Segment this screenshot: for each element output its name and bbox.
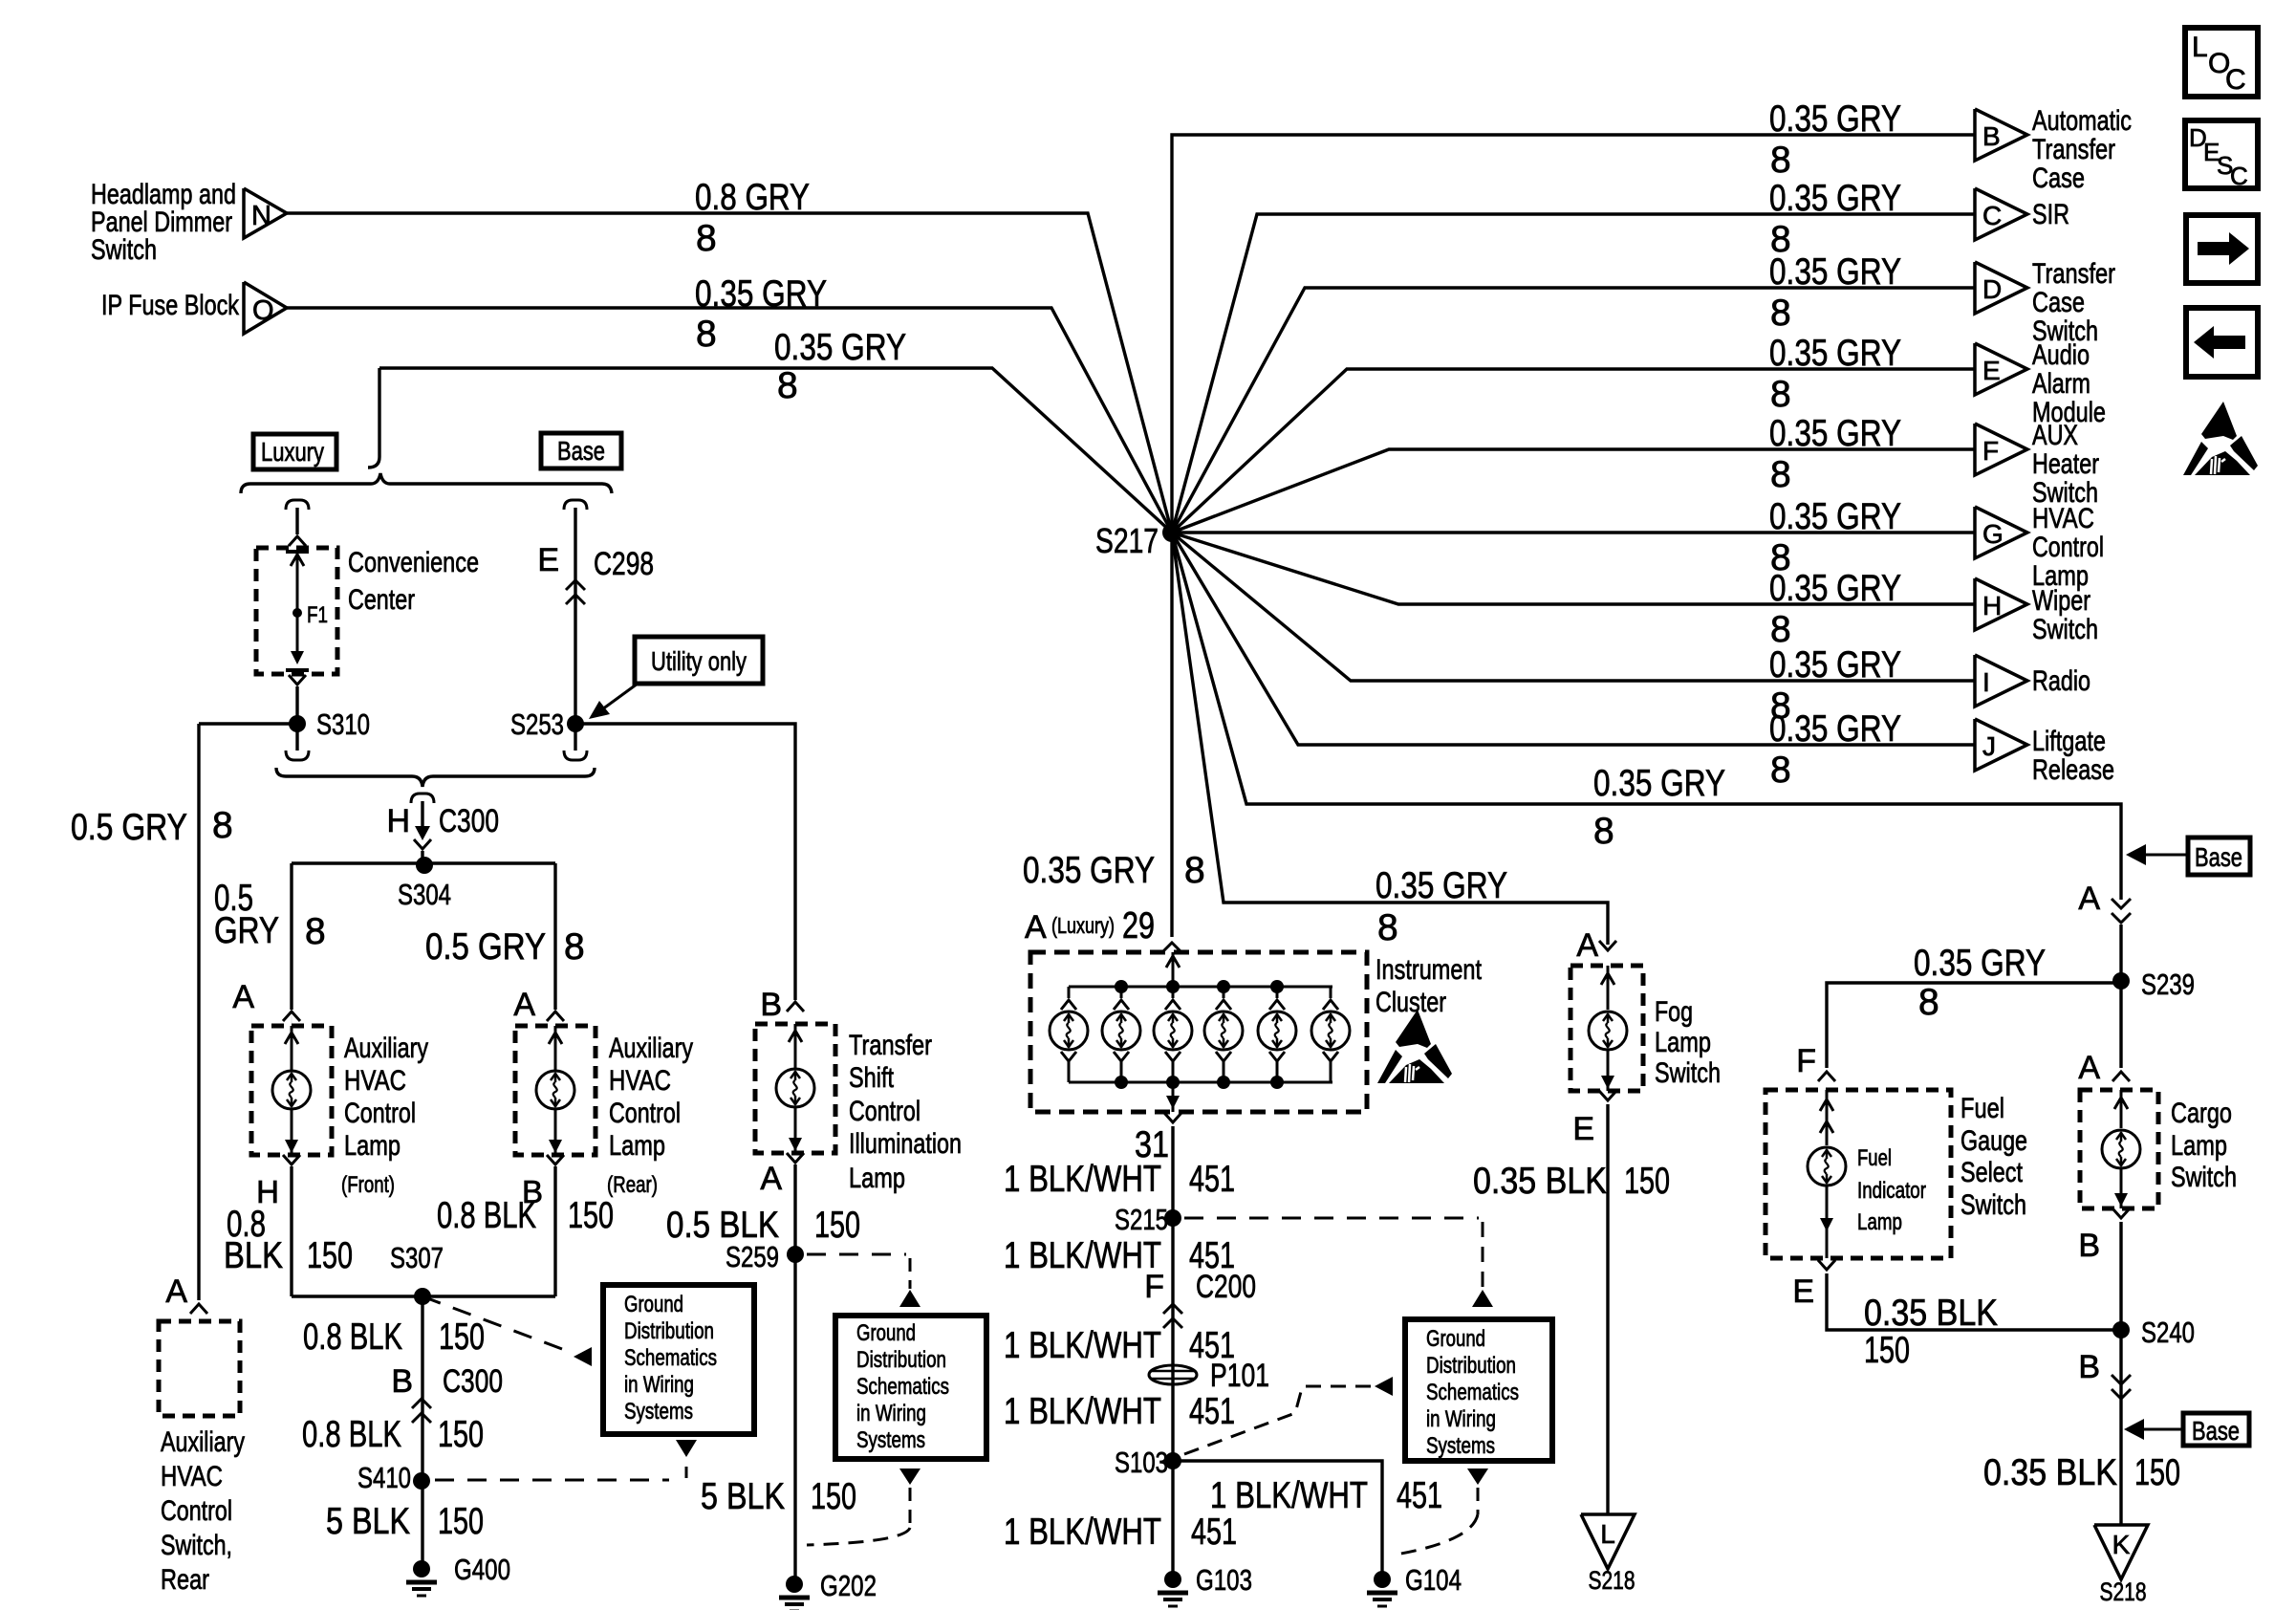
svg-text:5 BLK: 5 BLK <box>326 1501 410 1542</box>
svg-text:29: 29 <box>1122 905 1155 946</box>
svg-text:Shift: Shift <box>849 1062 895 1094</box>
wire S239 to fuel gauge select switch (0.35 GRY 8) <box>1796 943 2121 1081</box>
svg-text:8: 8 <box>1770 454 1791 495</box>
switch Fuel Gauge Select Switch with Fuel Indicator Lamp (dashed box) <box>1765 1090 2027 1258</box>
connector E triangle <box>1975 339 2106 428</box>
svg-text:G: G <box>1982 519 2004 549</box>
svg-text:Lamp: Lamp <box>1655 1027 1711 1058</box>
svg-text:150: 150 <box>438 1501 484 1542</box>
svg-text:Cargo: Cargo <box>2171 1098 2232 1129</box>
svg-text:Lamp: Lamp <box>609 1130 665 1162</box>
wire S410 to G400 (5 BLK 150) <box>326 1501 484 1542</box>
svg-text:Cluster: Cluster <box>1375 987 1446 1018</box>
svg-text:Radio: Radio <box>2032 665 2090 697</box>
svg-text:G103: G103 <box>1196 1563 1252 1597</box>
svg-text:Distribution: Distribution <box>624 1318 714 1344</box>
svg-text:J: J <box>1982 731 1996 761</box>
svg-text:E: E <box>1792 1273 1814 1310</box>
svg-text:0.35 GRY: 0.35 GRY <box>1769 708 1901 750</box>
wire label 1 BLK/WHT 451 (row 5) <box>1004 1512 1237 1553</box>
svg-text:S215: S215 <box>1115 1203 1168 1236</box>
svg-text:Fuel: Fuel <box>1960 1093 2004 1124</box>
svg-text:150: 150 <box>811 1476 856 1517</box>
svg-text:(Rear): (Rear) <box>607 1172 658 1198</box>
wire S217 to instrument cluster (0.35 GRY 8) <box>1023 533 1205 937</box>
svg-text:E: E <box>1982 356 2001 385</box>
wire S304 to rear HVAC lamp (0.5 GRY 8) <box>425 863 585 1023</box>
svg-text:C200: C200 <box>1196 1269 1256 1305</box>
svg-text:Wiper: Wiper <box>2032 585 2090 617</box>
tag box Base (right upper) with arrow <box>2126 838 2250 875</box>
dashed reference S215 to ground distribution box (right) <box>1184 1218 1493 1307</box>
svg-text:F: F <box>1796 1043 1816 1079</box>
svg-text:HVAC: HVAC <box>2032 503 2094 534</box>
wire label 1 BLK/WHT 451 (row 1) <box>1004 1159 1235 1200</box>
svg-text:0.8 BLK: 0.8 BLK <box>437 1195 536 1236</box>
dashed reference S307 to ground distribution box <box>422 1296 592 1366</box>
svg-text:150: 150 <box>2134 1452 2180 1493</box>
svg-text:Switch: Switch <box>1960 1189 2026 1221</box>
lamp front Auxiliary HVAC Control Lamp (dashed box) <box>251 1013 428 1209</box>
svg-text:Distribution: Distribution <box>856 1347 946 1373</box>
wire S253 to transfer shift lamp (B) <box>575 724 804 1023</box>
svg-text:A: A <box>165 1273 187 1310</box>
connector G triangle <box>1975 503 2104 592</box>
splice S239 <box>2112 968 2195 1001</box>
svg-text:0.35 BLK: 0.35 BLK <box>1473 1161 1607 1202</box>
svg-text:451: 451 <box>1191 1512 1237 1553</box>
legend box LOC <box>2185 28 2258 97</box>
wire S310 to left column (0.5 GRY 8) <box>71 724 297 1300</box>
svg-text:Distribution: Distribution <box>1426 1353 1516 1379</box>
svg-text:A: A <box>513 987 535 1023</box>
ground G400 <box>413 1560 430 1577</box>
svg-text:C298: C298 <box>594 546 654 582</box>
svg-text:I: I <box>1982 667 1990 697</box>
wire rear lamp to S307 bus (0.8 BLK 150) <box>437 1166 614 1296</box>
svg-text:G104: G104 <box>1405 1563 1462 1597</box>
wire S217 to F (0.35 GRY 8) <box>1172 413 1975 533</box>
svg-text:E: E <box>1572 1111 1594 1147</box>
svg-text:IP Fuse Block: IP Fuse Block <box>101 290 240 321</box>
connector B triangle <box>1975 105 2132 194</box>
svg-text:0.35 GRY: 0.35 GRY <box>1769 644 1901 685</box>
svg-text:0.35 GRY: 0.35 GRY <box>1023 850 1155 891</box>
svg-text:Switch: Switch <box>91 234 157 266</box>
svg-text:(Front): (Front) <box>341 1172 395 1198</box>
svg-text:in Wiring: in Wiring <box>1426 1406 1496 1432</box>
svg-text:Liftgate: Liftgate <box>2032 726 2106 757</box>
wire transfer shift lamp to S259 (0.5 BLK 150) <box>666 1164 860 1584</box>
legend box arrow left <box>2186 308 2258 377</box>
svg-text:0.35 GRY: 0.35 GRY <box>1769 251 1901 293</box>
svg-text:8: 8 <box>564 926 585 968</box>
svg-text:8: 8 <box>1918 982 1939 1023</box>
svg-text:AUX: AUX <box>2032 420 2078 451</box>
svg-text:0.35 BLK: 0.35 BLK <box>1864 1293 1998 1334</box>
splice S215 <box>1115 1203 1181 1236</box>
switch Auxiliary HVAC Control Switch Rear (dashed box) <box>159 1321 245 1596</box>
wire S217 to B (0.35 GRY 8) <box>1172 98 1975 533</box>
wire S307 to C300 (0.8 BLK 150) <box>303 1296 485 1569</box>
stub Luxury side connector <box>286 500 309 546</box>
svg-text:Switch: Switch <box>2032 614 2098 645</box>
legend box DESC <box>2185 120 2258 190</box>
svg-text:0.8 GRY: 0.8 GRY <box>695 177 810 218</box>
wire cluster pin 31 output <box>1135 1113 1181 1577</box>
svg-text:C300: C300 <box>443 1363 503 1400</box>
ESD symbol (legend) <box>2183 402 2258 475</box>
svg-text:G202: G202 <box>820 1569 877 1602</box>
svg-text:A: A <box>1025 909 1047 946</box>
splice S307 <box>292 1241 555 1305</box>
svg-text:1 BLK/WHT: 1 BLK/WHT <box>1004 1159 1161 1200</box>
svg-text:F: F <box>1982 436 1999 466</box>
svg-text:Auxiliary: Auxiliary <box>344 1033 428 1064</box>
svg-text:0.5 GRY: 0.5 GRY <box>425 926 546 968</box>
wire S217 to C (0.35 GRY 8) <box>1172 178 1975 533</box>
svg-text:L: L <box>1600 1519 1615 1549</box>
svg-text:8: 8 <box>1770 750 1791 791</box>
splice S304 and lamp feed bus <box>292 857 555 911</box>
dashed reference S410 to ground distribution box <box>435 1440 856 1517</box>
brace under S310/S253 <box>276 768 595 787</box>
svg-text:8: 8 <box>777 365 798 406</box>
tag box Luxury <box>253 434 336 469</box>
splice S217 hub <box>1095 521 1181 560</box>
svg-text:Switch: Switch <box>2171 1162 2237 1193</box>
connector B C300 lower <box>302 1363 503 1455</box>
svg-text:0.35 GRY: 0.35 GRY <box>1769 333 1901 374</box>
wire S217 to I (0.35 GRY 8) <box>1172 533 1975 727</box>
lamp Transfer Shift Control Illumination Lamp (dashed box) <box>755 1024 962 1197</box>
svg-text:L: L <box>2192 32 2208 63</box>
reference box Ground Distribution Schematics in Wiring Systems (right) <box>1405 1319 1552 1461</box>
connector K S218 (triangle down) <box>2094 1525 2148 1606</box>
wire N to S217 (0.8 GRY 8) <box>287 177 1172 533</box>
svg-text:F1: F1 <box>307 602 328 628</box>
svg-text:C: C <box>2225 64 2246 96</box>
wire fog lamp to S218-L (0.35 BLK 150) <box>1473 1091 1670 1514</box>
connector F triangle <box>1975 420 2099 509</box>
svg-text:P101: P101 <box>1210 1358 1269 1394</box>
svg-text:in Wiring: in Wiring <box>856 1401 926 1426</box>
svg-text:0.35 GRY: 0.35 GRY <box>1769 178 1901 219</box>
svg-text:Select: Select <box>1960 1157 2024 1188</box>
wire S217 to G (0.35 GRY 8) <box>1172 496 1975 578</box>
svg-text:0.35 GRY: 0.35 GRY <box>1375 865 1507 906</box>
svg-text:Center: Center <box>348 584 415 616</box>
pin A (Luxury) 29 into instrument cluster <box>1025 905 1181 952</box>
svg-text:0.8 BLK: 0.8 BLK <box>302 1414 401 1455</box>
wire S217 to E (0.35 GRY 8) <box>1172 333 1975 533</box>
wire front lamp to S307 bus (0.8 BLK 150) <box>224 1166 353 1296</box>
svg-text:451: 451 <box>1189 1159 1235 1200</box>
svg-text:C: C <box>2230 162 2248 190</box>
splice S310 <box>286 707 370 760</box>
svg-text:0.35 GRY: 0.35 GRY <box>695 273 827 315</box>
svg-text:B: B <box>2078 1228 2100 1264</box>
svg-text:S259: S259 <box>726 1240 779 1273</box>
wire S217 to H (0.35 GRY 8) <box>1172 533 1975 650</box>
wire S217 to fog lamp switch (0.35 GRY 8) <box>1172 533 1616 964</box>
svg-text:C300: C300 <box>439 803 499 839</box>
brace over Luxury/Base split <box>241 473 612 493</box>
dashed reference S259 to ground distribution box (middle) <box>807 1254 921 1307</box>
connector C triangle <box>1975 188 2069 240</box>
svg-text:S307: S307 <box>390 1241 444 1274</box>
svg-text:Lamp: Lamp <box>344 1130 401 1162</box>
svg-text:8: 8 <box>696 218 717 259</box>
splice S259 <box>726 1240 804 1273</box>
svg-text:Release: Release <box>2032 754 2114 786</box>
svg-text:H: H <box>386 803 410 839</box>
svg-text:0.35 GRY: 0.35 GRY <box>1769 568 1901 609</box>
svg-text:HVAC: HVAC <box>344 1065 406 1097</box>
wire S240 to S218-K (B, 0.35 BLK 150) <box>1983 1330 2180 1525</box>
svg-text:Lamp: Lamp <box>849 1163 905 1194</box>
svg-text:A: A <box>2078 1050 2100 1086</box>
lamp rear Auxiliary HVAC Control Lamp (dashed box) <box>515 1026 693 1209</box>
switch Fog Lamp Switch (dashed box with lamp) <box>1570 966 1721 1091</box>
stub Base side connector E C298 <box>537 500 654 724</box>
svg-text:S240: S240 <box>2141 1316 2195 1349</box>
svg-text:8: 8 <box>1770 140 1791 181</box>
ESD symbol (instrument cluster) <box>1377 1010 1452 1083</box>
tag box Utility only with arrow to S253 <box>589 637 763 719</box>
svg-text:1 BLK/WHT: 1 BLK/WHT <box>1004 1325 1161 1366</box>
svg-text:S217: S217 <box>1095 521 1159 560</box>
svg-text:HVAC: HVAC <box>609 1065 671 1097</box>
svg-text:Control: Control <box>344 1098 416 1129</box>
svg-text:C: C <box>1982 201 2002 230</box>
svg-text:Schematics: Schematics <box>624 1345 717 1371</box>
svg-text:F: F <box>1144 1269 1164 1305</box>
connector D triangle <box>1975 258 2115 347</box>
ground G104 <box>1374 1571 1391 1588</box>
svg-text:in Wiring: in Wiring <box>624 1372 694 1398</box>
svg-text:Indicator: Indicator <box>1857 1178 1926 1204</box>
svg-text:Fuel: Fuel <box>1857 1145 1892 1171</box>
svg-text:8: 8 <box>696 314 717 355</box>
svg-text:150: 150 <box>568 1195 614 1236</box>
wire S217 to D (0.35 GRY 8) <box>1172 251 1975 533</box>
fuse F1 Convenience Center (dashed box) <box>256 547 479 674</box>
svg-text:150: 150 <box>438 1414 484 1455</box>
svg-text:S239: S239 <box>2141 968 2195 1001</box>
svg-text:8: 8 <box>1184 850 1205 891</box>
svg-text:A: A <box>760 1161 782 1197</box>
svg-text:0.35 GRY: 0.35 GRY <box>1769 98 1901 140</box>
svg-text:Auxiliary: Auxiliary <box>161 1426 245 1458</box>
svg-text:B: B <box>2078 1349 2100 1385</box>
svg-text:Control: Control <box>849 1096 921 1127</box>
wire convenience-center branch to S217 (0.35 GRY 8) <box>368 327 1172 533</box>
wire O to S217 (0.35 GRY 8) <box>287 273 1172 533</box>
svg-text:1 BLK/WHT: 1 BLK/WHT <box>1004 1391 1161 1432</box>
svg-text:Control: Control <box>2032 532 2104 563</box>
wire S217 long branch to right column (0.35 GRY 8) <box>1172 533 2121 900</box>
ground G202 <box>786 1576 803 1593</box>
svg-text:BLK: BLK <box>224 1235 283 1276</box>
svg-text:0.35 GRY: 0.35 GRY <box>1769 496 1901 537</box>
svg-text:E: E <box>537 542 559 578</box>
svg-text:0.35 GRY: 0.35 GRY <box>1593 763 1725 804</box>
svg-text:HVAC: HVAC <box>161 1461 223 1492</box>
svg-text:Ground: Ground <box>1426 1326 1485 1352</box>
svg-text:Ground: Ground <box>856 1320 916 1346</box>
svg-text:Case: Case <box>2032 287 2085 318</box>
svg-text:451: 451 <box>1189 1391 1235 1432</box>
svg-text:150: 150 <box>814 1205 860 1246</box>
svg-text:Transfer: Transfer <box>2032 258 2115 290</box>
wire cargo lamp B to S240 <box>2078 1208 2130 1330</box>
svg-text:8: 8 <box>1377 907 1398 948</box>
svg-text:Illumination: Illumination <box>849 1128 962 1160</box>
svg-text:D: D <box>1982 274 2002 304</box>
svg-text:Luxury: Luxury <box>261 437 324 467</box>
svg-text:Base: Base <box>2192 1416 2240 1446</box>
wire label 1 BLK/WHT 451 (row 4) <box>1004 1391 1235 1432</box>
wire S304 to front HVAC lamp (0.5 GRY 8) <box>214 863 326 1021</box>
svg-text:Utility only: Utility only <box>651 646 747 676</box>
svg-text:S253: S253 <box>510 707 564 741</box>
connector J triangle <box>1975 719 2114 786</box>
svg-text:150: 150 <box>439 1316 485 1358</box>
tag box Base (right lower) with arrow <box>2124 1413 2249 1446</box>
svg-text:150: 150 <box>1624 1161 1670 1202</box>
dashed reference S103 to ground distribution box (right) <box>1184 1377 1393 1454</box>
svg-text:Audio: Audio <box>2032 339 2090 371</box>
svg-text:1 BLK/WHT: 1 BLK/WHT <box>1004 1235 1161 1276</box>
svg-text:Schematics: Schematics <box>856 1374 949 1400</box>
svg-text:Switch,: Switch, <box>161 1530 232 1561</box>
svg-text:G400: G400 <box>454 1553 510 1586</box>
svg-text:8: 8 <box>1770 293 1791 334</box>
svg-text:N: N <box>251 201 271 231</box>
splice S410 <box>357 1461 430 1494</box>
switch Cargo Lamp Switch (dashed box with lamp) <box>2080 1090 2237 1208</box>
svg-text:Base: Base <box>557 436 605 466</box>
svg-text:150: 150 <box>1864 1330 1910 1371</box>
svg-text:S410: S410 <box>357 1461 411 1494</box>
svg-text:Convenience: Convenience <box>348 547 479 578</box>
svg-text:0.8 BLK: 0.8 BLK <box>303 1316 402 1358</box>
reference box Ground Distribution Schematics in Wiring Systems (left) <box>603 1285 754 1434</box>
svg-text:Alarm: Alarm <box>2032 368 2090 400</box>
connector O (IP Fuse Block) <box>101 282 287 334</box>
splice S240 <box>2112 1316 2195 1349</box>
connector L S218 (triangle down) <box>1581 1514 1635 1595</box>
svg-text:S218: S218 <box>2100 1577 2147 1606</box>
svg-text:Auxiliary: Auxiliary <box>609 1033 693 1064</box>
svg-text:8: 8 <box>212 805 233 846</box>
svg-text:(Luxury): (Luxury) <box>1051 913 1115 938</box>
connector N (Headlamp and Panel Dimmer Switch) <box>91 179 287 266</box>
svg-text:Automatic: Automatic <box>2032 105 2132 137</box>
svg-text:0.5 GRY: 0.5 GRY <box>71 807 187 848</box>
svg-text:Transfer: Transfer <box>2032 134 2115 165</box>
svg-text:Schematics: Schematics <box>1426 1380 1519 1405</box>
tag box Base (top) <box>541 433 621 468</box>
component Instrument Cluster (dashed box with 6 lamps) <box>1030 952 1483 1112</box>
svg-text:Systems: Systems <box>1426 1433 1495 1459</box>
svg-text:Systems: Systems <box>856 1427 925 1453</box>
connector H triangle <box>1975 578 2098 645</box>
wire S239 to cargo lamp switch <box>2078 981 2130 1086</box>
svg-text:Systems: Systems <box>624 1399 693 1425</box>
svg-text:5 BLK: 5 BLK <box>701 1476 785 1517</box>
svg-text:Heater: Heater <box>2032 448 2099 480</box>
svg-text:Transfer: Transfer <box>849 1030 932 1061</box>
svg-text:8: 8 <box>1593 811 1614 852</box>
svg-text:8: 8 <box>1770 374 1791 415</box>
ground G103 <box>1164 1571 1181 1588</box>
svg-text:1 BLK/WHT: 1 BLK/WHT <box>1210 1475 1368 1516</box>
svg-text:H: H <box>1982 591 2002 620</box>
svg-text:S103: S103 <box>1115 1446 1168 1479</box>
splice S103 with branch to G104 <box>1115 1446 1442 1579</box>
svg-text:Switch: Switch <box>1655 1057 1721 1089</box>
svg-text:K: K <box>2112 1530 2131 1559</box>
svg-text:451: 451 <box>1397 1475 1442 1516</box>
svg-text:Instrument: Instrument <box>1375 954 1483 986</box>
svg-text:0.35 GRY: 0.35 GRY <box>1769 413 1901 454</box>
svg-text:B: B <box>760 987 782 1023</box>
wire label 1 BLK/WHT 451 (row 2) and connector F C200 <box>1004 1235 1256 1328</box>
svg-text:8: 8 <box>305 911 326 952</box>
svg-text:0.35 BLK: 0.35 BLK <box>1983 1452 2117 1493</box>
svg-text:Control: Control <box>609 1098 681 1129</box>
svg-text:150: 150 <box>307 1235 353 1276</box>
dashed reference below right box to G104 wire <box>1396 1469 1488 1555</box>
svg-text:1 BLK/WHT: 1 BLK/WHT <box>1004 1512 1161 1553</box>
svg-text:Base: Base <box>2195 842 2242 872</box>
svg-text:0.35 GRY: 0.35 GRY <box>774 327 906 368</box>
wire fuel lamp E to S240 (0.35 BLK 150) <box>1792 1260 2121 1371</box>
connector A to Auxiliary HVAC Control Switch Rear <box>165 1273 207 1314</box>
wire convenience to S310 <box>289 675 306 724</box>
connector A into right column with Base tag <box>2078 881 2131 981</box>
svg-text:B: B <box>391 1363 413 1400</box>
splice S253 <box>510 707 587 760</box>
connector H C300 <box>386 794 499 863</box>
svg-text:A: A <box>1576 927 1598 964</box>
svg-text:Case: Case <box>2032 163 2085 194</box>
svg-text:Fog: Fog <box>1655 996 1693 1028</box>
svg-text:S310: S310 <box>316 707 370 741</box>
svg-text:Control: Control <box>161 1495 232 1527</box>
svg-text:A: A <box>232 979 254 1015</box>
svg-text:Rear: Rear <box>161 1564 209 1596</box>
svg-text:S304: S304 <box>398 878 451 911</box>
svg-text:SIR: SIR <box>2032 199 2069 230</box>
svg-text:A: A <box>2078 881 2100 917</box>
svg-text:Ground: Ground <box>624 1292 683 1317</box>
svg-text:B: B <box>1982 121 2001 151</box>
svg-text:S218: S218 <box>1589 1566 1635 1595</box>
dashed reference below middle box to G202 wire (5 BLK 150) <box>807 1469 921 1545</box>
svg-text:O: O <box>252 295 274 326</box>
wire label 1 BLK/WHT 451 (row 3) and grommet P101 <box>1004 1325 1269 1394</box>
svg-text:Gauge: Gauge <box>1960 1125 2027 1157</box>
connector I triangle <box>1975 655 2090 707</box>
svg-text:GRY: GRY <box>214 910 279 951</box>
reference box Ground Distribution Schematics in Wiring Systems (middle) <box>835 1316 986 1459</box>
svg-text:Lamp: Lamp <box>1857 1209 1902 1235</box>
legend box arrow right <box>2186 215 2258 283</box>
svg-text:Lamp: Lamp <box>2171 1130 2227 1162</box>
